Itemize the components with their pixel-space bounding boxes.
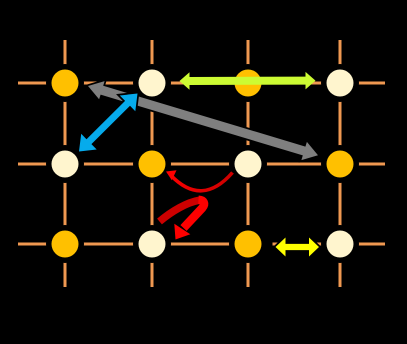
node (4,2) orange site [321,145,359,183]
node (3,2) cream site [229,145,267,183]
lattice bond column 1 (vertical wire) [64,40,67,287]
green double-headed arrow (horizontal second-neighbor exchange) [180,72,316,90]
lattice bond row 2 (horizontal wire) [18,163,385,166]
blue double-headed arrow (short diagonal exchange) [79,94,138,152]
lattice bond row 1 (horizontal wire) [18,82,385,85]
node (3,1) orange site [229,64,267,102]
red thin curved arrow (arc between middle-row sites) [166,170,233,190]
lattice bond column 2 (vertical wire) [151,40,154,287]
node (3,3) orange site [229,225,267,263]
yellow double-headed arrow (nearest-neighbor exchange) [276,238,320,257]
node (2,2) orange site [133,145,171,183]
node (2,1) cream site [133,64,171,102]
lattice bond row 3 (horizontal wire) [18,243,385,246]
node (1,3) orange site [46,225,84,263]
node (1,1) orange site [46,64,84,102]
black gap in bond left of yellow arrow [265,240,273,249]
red thick hairpin arrow (on-site / return hop) [160,200,205,240]
node (2,3) cream site [133,225,171,263]
lattice bond column 4 (vertical wire) [339,40,342,287]
gray double-headed arrow (long diagonal exchange) [88,81,318,160]
node (1,2) cream site [46,145,84,183]
lattice bond column 3 (vertical wire) [247,40,250,287]
node (4,1) cream site [321,64,359,102]
node (4,3) cream site [321,225,359,263]
